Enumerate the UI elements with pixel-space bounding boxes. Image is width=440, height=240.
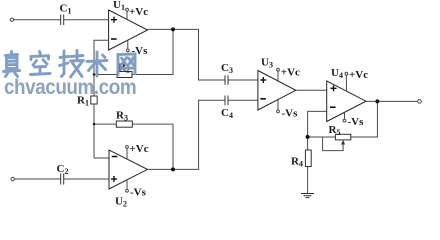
op-amp U1 [109, 10, 148, 50]
watermark chinese char zhen [4, 52, 20, 77]
wire [228, 79, 258, 81]
wire U4 output [366, 100, 418, 102]
junction node U4 out [375, 99, 379, 103]
wire [132, 123, 173, 125]
R5 wiper arrow [341, 140, 345, 145]
svg-text:C2: C2 [57, 163, 69, 176]
wire feedback left R2 [94, 74, 117, 76]
resistor R1 [91, 96, 97, 104]
svg-text:U1: U1 [113, 0, 125, 12]
capacitor C4 [225, 96, 228, 106]
wire U3 out [296, 89, 327, 91]
wire [93, 104, 95, 158]
watermark chinese char kong [31, 52, 51, 75]
U1 power pin top [126, 11, 128, 19]
svg-text:C1: C1 [60, 3, 72, 16]
wire [14, 19, 61, 21]
svg-text:C4: C4 [221, 107, 233, 120]
wire R3 riser [172, 124, 174, 169]
svg-text:+Vc: +Vc [281, 67, 300, 79]
svg-text:U2: U2 [115, 196, 127, 209]
wire R5 left [308, 136, 336, 138]
capacitor C2 [61, 174, 64, 185]
resistor R3 [116, 121, 132, 127]
ground [301, 194, 314, 198]
wire [94, 157, 109, 159]
wire [228, 99, 258, 101]
svg-text:U4: U4 [331, 67, 343, 80]
op-amp U4 [327, 81, 366, 122]
U2 power pin bottom [126, 180, 128, 189]
svg-text:R5: R5 [329, 124, 341, 137]
junction node R1-R3 [93, 123, 95, 125]
wire [64, 178, 109, 180]
svg-text:R4: R4 [291, 156, 303, 169]
svg-text:+Vc: +Vc [129, 6, 148, 18]
svg-text:-Vs: -Vs [130, 187, 147, 199]
watermark chvacuum.com [4, 76, 136, 100]
wire U4 minus input [308, 111, 327, 150]
svg-text:-Vs: -Vs [348, 116, 365, 128]
minus sign U1 [111, 38, 117, 40]
wire minus input U1 [94, 40, 109, 96]
output terminal [418, 100, 422, 104]
op-amp U2 [109, 150, 148, 189]
svg-text:+Vc: +Vc [130, 143, 149, 155]
U4 power pin bottom [344, 112, 346, 119]
plus sign U3 [260, 77, 266, 83]
wire [64, 19, 109, 21]
svg-text:+Vc: +Vc [349, 69, 368, 81]
U3 power pin bottom [277, 100, 279, 110]
wire R5 right [351, 101, 378, 137]
watermark chinese char ji [60, 51, 84, 78]
wire [94, 123, 116, 125]
U2 power pin top [126, 149, 128, 160]
watermark chinese char wang [118, 54, 135, 75]
minus sign U3 [260, 98, 266, 100]
wire R5 wiper loop [323, 137, 344, 151]
op-amp U3 [258, 71, 296, 111]
U2 output wire [148, 100, 225, 169]
junction node R4/R5 [306, 135, 310, 139]
wire [307, 167, 309, 194]
wire feedback right R2 [132, 29, 173, 74]
minus sign U4 [330, 106, 336, 108]
svg-text:U3: U3 [261, 57, 273, 70]
U1 power pin bottom [127, 40, 129, 49]
svg-text:R3: R3 [116, 110, 128, 123]
junction node R1-R2 [93, 73, 95, 75]
svg-text:-Vs: -Vs [282, 108, 299, 120]
junction node U2 out [171, 167, 175, 171]
resistor R4 [305, 150, 311, 167]
plus sign U2 [111, 176, 117, 182]
plus sign U1 [111, 17, 117, 23]
U4 power pin top [345, 75, 347, 91]
capacitor C3 [225, 75, 228, 85]
minus sign U2 [112, 156, 118, 158]
svg-text:C3: C3 [221, 62, 233, 75]
potentiometer R5 [335, 134, 350, 140]
U3 power pin top [277, 71, 279, 81]
input terminal IN1 [10, 18, 13, 21]
wire [14, 178, 60, 180]
watermark chinese char shu [87, 52, 107, 76]
U1 output wire [148, 29, 225, 80]
resistor R2 [117, 72, 132, 78]
junction node U1 out [171, 27, 175, 31]
plus sign U4 [331, 85, 337, 91]
input terminal IN2 [11, 177, 14, 180]
capacitor C1 [61, 15, 64, 26]
